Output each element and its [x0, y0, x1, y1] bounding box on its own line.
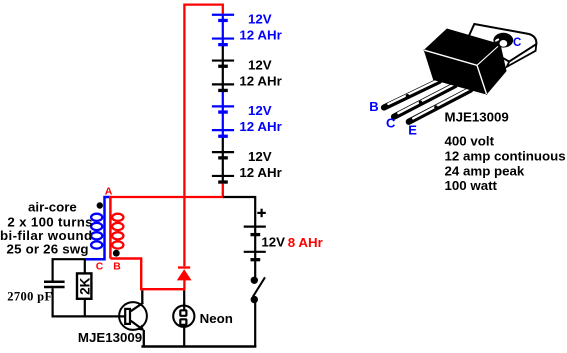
label Neon	[200, 311, 233, 326]
wire: black collector lead from red corner to transistor	[141, 290, 143, 303]
svg-text:E: E	[408, 123, 417, 138]
package leg E	[409, 89, 471, 122]
coil L1 primary (blue) with leads	[85, 197, 110, 259]
package body	[424, 29, 506, 94]
battery B2 12V 12AHr (black)	[212, 57, 282, 106]
switch S1	[251, 277, 265, 347]
svg-text:24 amp peak: 24 amp peak	[445, 163, 525, 178]
spec text block	[445, 134, 566, 194]
phasing dot top (blue winding start)	[97, 202, 103, 208]
svg-text:12V: 12V	[248, 149, 272, 164]
package mounting hole	[493, 33, 513, 48]
battery 12V 8AHr	[244, 209, 323, 277]
svg-text:B: B	[113, 262, 121, 273]
svg-text:12 amp continuous: 12 amp continuous	[445, 149, 566, 164]
svg-text:8 AHr: 8 AHr	[288, 235, 323, 250]
coil annotation text	[0, 200, 93, 257]
capacitor C1 2700pF	[44, 282, 65, 317]
svg-text:12 AHr: 12 AHr	[239, 27, 281, 42]
diode D1 (red)	[177, 268, 192, 291]
package leg C	[394, 85, 455, 117]
node label A	[105, 185, 113, 197]
svg-text:25 or 26 swg: 25 or 26 swg	[7, 241, 89, 256]
tab label C	[513, 37, 521, 49]
svg-text:B: B	[369, 99, 378, 114]
package tab (metal flange)	[468, 24, 536, 67]
svg-text:12 AHr: 12 AHr	[239, 165, 281, 180]
wire: red from charge battery + terminal left and down to diode cathode	[184, 5, 222, 267]
TO-220 package drawing	[369, 24, 536, 138]
battery B1 12V 12AHr (blue)	[212, 12, 282, 61]
package leg B	[384, 80, 439, 107]
svg-text:C: C	[513, 37, 521, 49]
wire: red stub from battery stack bottom to node A horizontal	[109, 184, 223, 198]
svg-text:12V: 12V	[248, 12, 272, 27]
label MJE13009 (schematic)	[78, 330, 142, 345]
svg-text:A: A	[105, 185, 113, 197]
node label C	[96, 262, 104, 273]
wire: bottom ground rail	[141, 345, 256, 348]
svg-text:2700 pF: 2700 pF	[7, 289, 52, 303]
svg-text:100 watt: 100 watt	[445, 178, 498, 193]
svg-text:2K: 2K	[77, 277, 92, 295]
battery B3 12V 12AHr (blue)	[212, 103, 282, 152]
wire: red from B to transistor collector node	[110, 259, 141, 290]
wire: black neon branch from collector node down	[183, 290, 185, 306]
phasing dot bottom (red winding end)	[113, 250, 120, 257]
neon lamp	[173, 303, 194, 347]
label MJE13009 (package)	[445, 110, 509, 125]
svg-text:C: C	[386, 116, 396, 131]
svg-text:MJE13009: MJE13009	[445, 110, 509, 125]
wire: black node C to capacitor and down	[53, 259, 85, 281]
svg-text:12 AHr: 12 AHr	[239, 73, 281, 88]
svg-text:12 AHr: 12 AHr	[239, 119, 281, 134]
label 2700 pF	[7, 289, 52, 303]
svg-text:Neon: Neon	[200, 311, 233, 326]
svg-text:12V: 12V	[248, 57, 272, 72]
svg-text:MJE13009: MJE13009	[78, 330, 142, 345]
svg-text:C: C	[96, 262, 104, 273]
resistor R1 2K	[77, 259, 92, 316]
svg-text:12V: 12V	[248, 103, 272, 118]
transistor Q1 MJE13009 (NPN)	[119, 302, 147, 347]
node label B	[113, 262, 121, 273]
wire: black from node A row to 12V 8AHr battery	[223, 197, 255, 226]
battery B4 12V 12AHr (black)	[212, 149, 282, 182]
coil L2 secondary (red) with lead down to B	[110, 196, 123, 259]
pin label B	[369, 99, 378, 114]
pin label C	[386, 116, 396, 131]
wire: red collector node horizontal to diode anode	[140, 288, 186, 290]
svg-text:air-core: air-core	[28, 200, 77, 215]
svg-text:12V: 12V	[261, 235, 285, 250]
wire: base rail	[52, 315, 125, 317]
pin label E	[408, 123, 417, 138]
svg-text:400 volt: 400 volt	[445, 134, 495, 149]
